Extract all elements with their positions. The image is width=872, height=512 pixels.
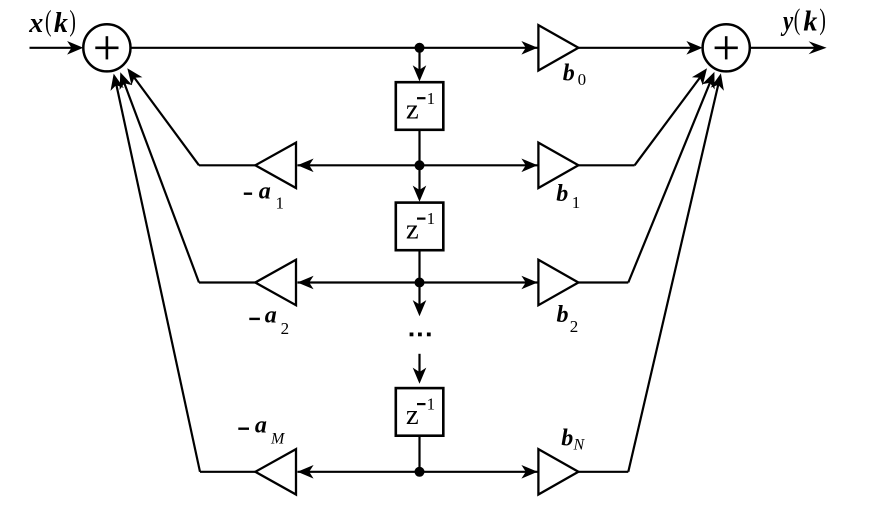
wire row4 horizontal — [297, 471, 537, 473]
arrowhead N3 down — [413, 300, 427, 316]
svg-text:z: z — [406, 93, 419, 125]
delay block Z3 (z^-1) — [396, 388, 444, 436]
label x(k) — [28, 4, 76, 39]
svg-text:y: y — [780, 5, 793, 37]
wire N1 down — [418, 48, 420, 77]
svg-text:b: b — [561, 426, 573, 452]
svg-text:1: 1 — [427, 395, 436, 414]
arrowhead -a2 into S1 — [120, 72, 133, 90]
node N1 junction — [415, 43, 425, 53]
label b1 — [556, 181, 580, 212]
node N3 junction — [415, 278, 425, 288]
summer S1 (input adder) — [83, 24, 130, 71]
wire b1 feed diagonal — [635, 72, 705, 166]
svg-text:): ) — [819, 3, 826, 36]
wire Z2 to N3 — [418, 250, 420, 282]
arrowhead into delay Z2 — [413, 186, 427, 202]
arrowhead -aM into S1 — [111, 74, 124, 91]
node N4 junction — [415, 467, 425, 477]
wire -a2 feedback diagonal — [122, 77, 199, 283]
svg-text:z: z — [406, 399, 419, 431]
svg-text:M: M — [270, 431, 286, 448]
wire -aM tip to corner — [200, 471, 255, 473]
wire -a2 tip to corner — [199, 281, 255, 283]
gain b2 triangle — [538, 260, 578, 305]
wire b1 tip to corner — [578, 164, 634, 166]
svg-text:2: 2 — [281, 319, 290, 338]
gain bN triangle — [538, 449, 578, 494]
arrowhead -a1 into S1 — [127, 68, 142, 85]
label -a1 — [244, 179, 284, 213]
svg-text:x: x — [28, 8, 43, 39]
gain -a1 triangle — [255, 143, 296, 188]
svg-text:(: ( — [45, 4, 52, 37]
delay block Z1 (z^-1) — [396, 82, 444, 130]
arrowhead into b1 — [521, 159, 537, 173]
svg-text:k: k — [54, 8, 68, 39]
wire S1 to b0 — [131, 47, 539, 49]
arrowhead into summer S2 — [686, 41, 702, 55]
arrowhead bN into S2 — [711, 73, 724, 90]
arrowhead into summer S1 — [67, 41, 83, 55]
label b2 — [557, 302, 579, 336]
svg-text:a: a — [265, 303, 277, 329]
svg-text:(: ( — [794, 3, 801, 36]
wire bN feed diagonal — [628, 78, 720, 472]
svg-text:0: 0 — [578, 70, 587, 89]
gain b0 triangle — [538, 25, 578, 70]
arrowhead into -aM — [297, 465, 313, 479]
svg-text:k: k — [803, 7, 817, 38]
svg-text:z: z — [406, 214, 419, 246]
node N2 junction — [415, 160, 425, 170]
arrowhead b2 into S2 — [702, 72, 715, 90]
arrowhead into -a1 — [297, 159, 313, 173]
wire row2 horizontal — [297, 164, 537, 166]
summer S2 (output adder) — [703, 24, 750, 71]
svg-text:): ) — [69, 4, 76, 37]
wire N3 down — [418, 283, 420, 313]
wire b2 feed diagonal — [628, 77, 712, 283]
wire -a1 tip to corner — [199, 164, 255, 166]
svg-text:a: a — [255, 412, 267, 438]
gain -a2 triangle — [255, 260, 296, 305]
svg-text:1: 1 — [427, 209, 436, 228]
wire input — [30, 47, 79, 49]
label bN — [561, 426, 585, 454]
arrowhead into b2 — [521, 276, 537, 290]
arrowhead into bN — [521, 465, 537, 479]
wire b2 tip to corner — [578, 281, 628, 283]
svg-text:b: b — [557, 302, 569, 328]
label -a2 — [249, 303, 289, 339]
arrowhead into delay Z3 — [413, 368, 427, 384]
gain -aM triangle — [255, 449, 296, 494]
label y(k) — [780, 3, 825, 38]
gain b1 triangle — [538, 143, 578, 188]
wire bN tip to corner — [578, 471, 628, 473]
svg-text:a: a — [259, 179, 271, 205]
delay block Z2 (z^-1) — [396, 203, 444, 251]
arrowhead into -a2 — [297, 276, 313, 290]
ellipsis dots — [410, 333, 431, 337]
svg-text:1: 1 — [572, 193, 581, 212]
wire N2 down — [418, 165, 420, 197]
label b0 — [563, 60, 586, 89]
arrowhead b1 into S2 — [692, 68, 707, 85]
wire below ellipsis — [418, 354, 420, 380]
label -aM — [238, 412, 286, 447]
wire Z3 to N4 — [418, 436, 420, 472]
svg-text:b: b — [556, 181, 568, 207]
wire b0 to summer S2 — [578, 47, 698, 49]
wire -a1 feedback diagonal — [131, 73, 200, 166]
svg-text:N: N — [573, 437, 586, 454]
svg-text:2: 2 — [570, 317, 579, 336]
wire row3 horizontal — [297, 281, 537, 283]
wire output — [750, 47, 823, 49]
wire -aM feedback diagonal — [115, 79, 200, 472]
svg-text:1: 1 — [276, 193, 285, 212]
svg-text:1: 1 — [427, 89, 436, 108]
svg-text:b: b — [563, 60, 575, 86]
arrowhead output y(k) — [809, 41, 827, 54]
wire Z1 to N2 — [418, 130, 420, 166]
arrowhead into delay Z1 — [413, 65, 427, 81]
arrowhead into b0 — [521, 41, 537, 55]
